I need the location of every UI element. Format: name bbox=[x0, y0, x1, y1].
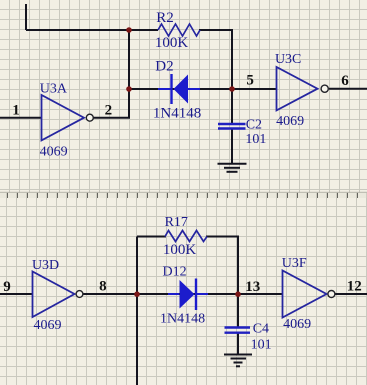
svg-text:5: 5 bbox=[246, 73, 254, 89]
svg-text:D2: D2 bbox=[155, 59, 173, 75]
svg-text:100K: 100K bbox=[155, 35, 189, 51]
svg-text:C2: C2 bbox=[246, 117, 262, 132]
svg-text:100K: 100K bbox=[163, 242, 197, 258]
svg-text:9: 9 bbox=[3, 279, 11, 295]
svg-text:4069: 4069 bbox=[283, 317, 311, 332]
svg-text:13: 13 bbox=[245, 279, 260, 295]
svg-text:R17: R17 bbox=[165, 215, 188, 230]
svg-text:D12: D12 bbox=[163, 265, 187, 280]
svg-text:U3C: U3C bbox=[275, 52, 301, 67]
svg-text:101: 101 bbox=[245, 132, 266, 147]
svg-text:4069: 4069 bbox=[40, 145, 68, 160]
svg-text:8: 8 bbox=[99, 279, 107, 295]
svg-text:4069: 4069 bbox=[33, 318, 61, 333]
svg-text:4069: 4069 bbox=[276, 114, 304, 129]
svg-text:1N4148: 1N4148 bbox=[160, 312, 205, 327]
svg-text:1N4148: 1N4148 bbox=[153, 105, 201, 121]
svg-text:101: 101 bbox=[251, 338, 272, 353]
svg-text:U3D: U3D bbox=[32, 258, 59, 273]
svg-text:6: 6 bbox=[341, 73, 349, 89]
svg-text:R2: R2 bbox=[156, 10, 174, 26]
svg-text:U3A: U3A bbox=[40, 82, 68, 97]
svg-text:2: 2 bbox=[105, 102, 113, 118]
svg-text:12: 12 bbox=[347, 279, 362, 295]
svg-text:1: 1 bbox=[12, 102, 20, 118]
svg-text:U3F: U3F bbox=[282, 256, 307, 271]
svg-text:C4: C4 bbox=[253, 321, 269, 336]
